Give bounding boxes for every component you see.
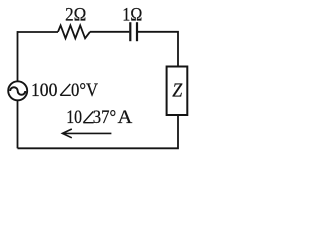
wire Z-to-bottom-right corner	[111, 115, 178, 148]
wire left lower (source to bottom corner)	[17, 101, 19, 149]
label 10∠37°A	[66, 107, 132, 128]
capacitor 1Ω plates	[130, 22, 137, 41]
wire top-left segment	[18, 31, 59, 33]
impedance box Z	[167, 67, 188, 116]
label 2Ω	[65, 4, 86, 25]
svg-text:Z: Z	[172, 79, 183, 101]
wire bottom	[18, 147, 112, 149]
wire left upper (top corner to source)	[17, 31, 19, 80]
label 1Ω	[122, 4, 142, 25]
svg-text:1Ω: 1Ω	[122, 4, 142, 25]
label Z	[172, 79, 183, 101]
AC source circle	[8, 81, 27, 100]
label 100∠0°V	[31, 80, 98, 101]
wire resistor-to-capacitor	[90, 31, 129, 33]
svg-text:37°: 37°	[93, 107, 116, 128]
svg-text:2Ω: 2Ω	[65, 4, 86, 25]
wire capacitor-to-corner and down to Z	[138, 32, 178, 66]
resistor 2Ω zigzag	[58, 25, 90, 38]
svg-text:10: 10	[66, 107, 82, 128]
svg-text:A: A	[118, 107, 133, 128]
svg-text:100: 100	[31, 80, 57, 101]
svg-text:0°V: 0°V	[71, 80, 98, 101]
current arrow (pointing left)	[62, 129, 111, 138]
